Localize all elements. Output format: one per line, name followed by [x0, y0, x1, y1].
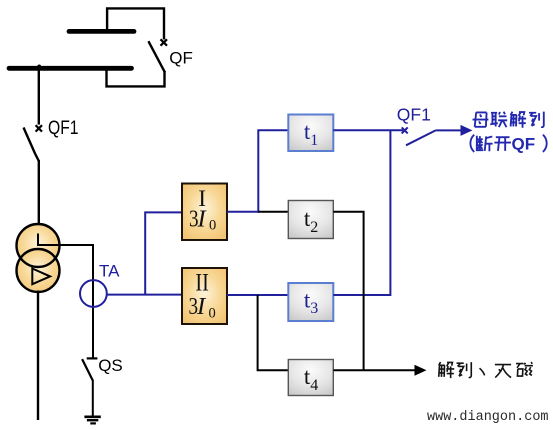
svg-text:TA: TA [99, 261, 120, 280]
arrowhead (black) [415, 365, 427, 376]
wire (black): junction to t2 [258, 211, 288, 213]
transformer winding fills [17, 224, 60, 267]
switch QS top tick [87, 357, 98, 359]
contact terminal X of QF1 (right) [402, 127, 408, 133]
svg-text:QF: QF [169, 48, 193, 67]
text 母联解列 (blue) [473, 112, 544, 128]
wire: busbar II down to QF1 [38, 68, 40, 125]
transformer upper winding circle [17, 224, 60, 267]
wire (blue): vertical t3 out up to t1 row [333, 130, 390, 295]
wire (blue): relay II out to t3 [227, 294, 288, 296]
arrow to tripping output [436, 129, 462, 131]
breaker QF1 blade [24, 128, 39, 162]
svg-text:QF1: QF1 [397, 104, 431, 124]
breaker terminal X of QF [161, 39, 168, 45]
wire (blue): relay I out to junction [227, 211, 259, 213]
wire: QS to ground [92, 380, 94, 416]
timer t2 box [288, 201, 333, 239]
relay I box [182, 184, 227, 241]
transformer lower winding circle [17, 249, 60, 292]
busbar II (bottom) [9, 66, 132, 71]
svg-text:www.diangon.com: www.diangon.com [427, 410, 549, 425]
wire: QF return to busbar II [107, 69, 165, 86]
timer t3 box [288, 283, 333, 321]
delta symbol in lower winding [32, 269, 50, 285]
wire: busbar I up-over to QF breaker [107, 8, 164, 39]
wire (blue): junction up to t1 [258, 130, 288, 212]
text 解列、灭磁 (black) [439, 362, 533, 378]
breaker QF blade [148, 41, 165, 72]
ground symbol [84, 417, 100, 424]
busbar I (top) [69, 29, 134, 34]
wire (blue): branch up to relay I [145, 212, 182, 294]
wire: transformer tap right and down through TA to QS [38, 245, 93, 358]
svg-text:QF1: QF1 [48, 118, 79, 139]
svg-text:QF: QF [512, 135, 536, 154]
arrowhead (blue) [461, 125, 473, 136]
wire (blue): TA to relay inputs [107, 294, 182, 296]
wire (black): t4 out to arrow [333, 369, 416, 371]
timer t1 box [288, 115, 333, 152]
timer t4 box [288, 360, 333, 396]
switch QS blade [82, 359, 93, 380]
wire: QF1 down to transformer [38, 160, 40, 225]
feeder below transformer [37, 291, 39, 421]
svg-text:0: 0 [209, 217, 216, 233]
contact QF1 blade (blue) [406, 130, 436, 145]
breaker terminal X of QF1 [36, 125, 42, 131]
junction on busbar II [37, 65, 41, 69]
CT circle TA (blue) [80, 280, 107, 307]
wye stub in upper winding [37, 234, 39, 247]
text （断开QF） (blue) [470, 135, 546, 152]
wire (black): branch down to t4 [258, 295, 288, 370]
svg-text:QS: QS [98, 356, 123, 375]
value 3I0 (relay I) [189, 204, 216, 233]
svg-text:0: 0 [209, 305, 216, 321]
wire (black): t2 out down to t4 row [333, 212, 363, 371]
value 3I0 (relay II) [189, 292, 216, 321]
wire (blue): t1 out to QF1 contact [333, 129, 403, 131]
relay II box [182, 268, 227, 324]
